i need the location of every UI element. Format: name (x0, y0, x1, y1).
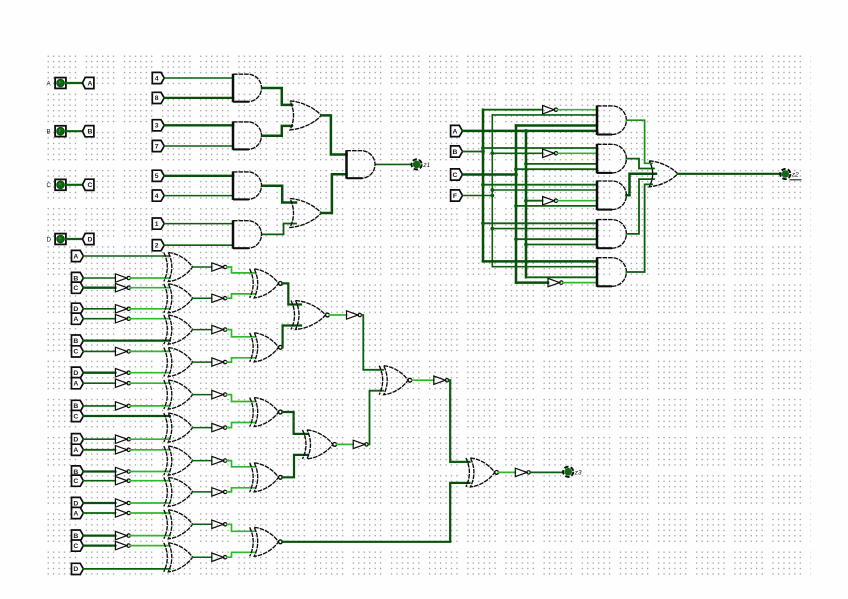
wire tunnel A r17 to inverter (83, 512, 115, 514)
label D (input pin D name) (47, 236, 52, 243)
tunnel S4-4 (D) (72, 303, 84, 314)
wire NX1 to XNOR XN1 in1 (227, 267, 256, 273)
wire tunnel A r1 direct to XOR (83, 255, 169, 257)
AND gate U10 (5-input) (597, 181, 626, 211)
input pin D (55, 234, 66, 245)
svg-text:C: C (73, 413, 78, 420)
wire tunnel B r14 to inverter (83, 470, 115, 472)
wire X10 out to inverter (193, 556, 212, 558)
wire tunnel A r9 to inverter (83, 382, 115, 384)
wire inverter N4-19 out to XOR (130, 545, 169, 547)
svg-text:C: C (453, 172, 458, 179)
wire tunnel 4 to AND (164, 195, 233, 197)
wire input D to tunnel (66, 238, 83, 240)
wire tunnel 1 to AND (164, 223, 233, 225)
tunnel S4-12 (D) (72, 434, 84, 445)
svg-text:D: D (73, 306, 78, 313)
svg-text:B: B (73, 338, 78, 345)
svg-text:B: B (88, 129, 93, 136)
junction V2 N2 row (490, 151, 494, 155)
XNOR gate XN7 (303, 430, 337, 459)
tunnel T23 (3) (152, 120, 164, 131)
wire tunnel B r6 direct to XOR (83, 339, 169, 341)
tunnel S4-15 (C) (72, 475, 84, 486)
inverter NX9 (212, 520, 227, 528)
tunnel S4-14 (B) (72, 466, 84, 477)
wire V4 to U9 pin4 (526, 163, 597, 165)
wire tunnel 5 to AND (164, 175, 233, 177)
wire tunnel A r5 to inverter (83, 318, 115, 320)
svg-text:3: 3 (155, 123, 159, 130)
XOR gate X9 (164, 510, 193, 539)
svg-text:D: D (88, 236, 93, 243)
wire inverter N4-4 out to XOR (130, 308, 169, 310)
wire inverter N4-5 out to XOR (130, 318, 169, 320)
wire X8 out to inverter (193, 491, 212, 493)
wire X5 out to inverter (193, 394, 212, 396)
wire X7 out to inverter (193, 460, 212, 462)
wire NX14 out to LED z3 (530, 471, 563, 473)
svg-text:A: A (73, 447, 78, 454)
wire V1 to U11 pin1 (483, 222, 597, 224)
tunnel T24 (7) (152, 140, 164, 151)
inverter NX14 (515, 468, 530, 476)
wire V1 top to NOT N1 (483, 109, 543, 111)
junction V2 G4 row (490, 227, 494, 231)
wire V4 bottom to U12 pin4 (526, 276, 597, 278)
wire V2 top to U8 pin2 (492, 114, 597, 116)
AND gate U4 (233, 220, 262, 249)
svg-text:D: D (47, 236, 52, 243)
svg-text:C: C (88, 182, 93, 189)
inverter NX2 (212, 294, 227, 302)
wire inverter N4-16 out to XOR (130, 502, 169, 504)
wire U2 out to OR U5 (263, 126, 292, 136)
XOR gate X3 (164, 315, 193, 344)
tunnel T28 (2) (152, 240, 164, 251)
junction V1 G4 row (481, 221, 485, 225)
junction V3 G3 row (514, 204, 518, 208)
svg-text:z3: z3 (574, 470, 582, 477)
XNOR gate XN4 (250, 463, 283, 492)
tunnel F (right section) (451, 190, 463, 201)
wire V2 to U10 pin2 (492, 189, 597, 191)
wire V4 to U11 pin5 (526, 244, 597, 246)
svg-text:7: 7 (155, 143, 159, 150)
svg-text:A: A (88, 80, 93, 87)
inverter N4-17 (115, 509, 130, 517)
wire U10 out to OR U13 (626, 174, 656, 196)
XNOR gate XN9 (final) (466, 458, 499, 487)
wire XN1 to XN6 in1 (282, 283, 301, 304)
inverter N4-5 (115, 315, 130, 323)
junction V4 G4 row (524, 243, 528, 247)
inverter N4-13 (115, 446, 130, 454)
wire N3 out to U10 pin4 (558, 200, 597, 202)
svg-text:D: D (73, 566, 78, 573)
svg-text:C: C (73, 543, 78, 550)
junction V4 on A row (524, 129, 528, 133)
wire bus V2 (F) (491, 115, 493, 267)
inverter N4-18 (115, 531, 130, 539)
svg-text:D: D (73, 370, 78, 377)
wire tunnel C r7 to inverter (83, 350, 115, 352)
wire XN6 out to inverter NX11 (329, 314, 346, 316)
wire C row to bus V3 (463, 173, 517, 176)
junction V1 G2 row (481, 146, 485, 150)
wire U12 out to OR U13 (626, 184, 652, 272)
wire V3 top to U8 pin3 (516, 124, 597, 127)
wire tunnel 7 to AND (164, 145, 233, 147)
XOR gate X1 (164, 253, 193, 282)
wire tunnel C r3 to inverter (83, 287, 115, 289)
label A (input pin A name) (47, 80, 52, 87)
wire XN5 to final XN9 in2 (282, 483, 469, 542)
wire NX12 to XN8 in2 (368, 391, 383, 445)
wire U6 out to AND U7 (321, 174, 346, 213)
wire tunnel D r12 to inverter (83, 438, 115, 440)
wire X9 out to inverter (193, 523, 212, 525)
tunnel S4-16 (D) (72, 497, 84, 508)
tunnel T22 (8) (152, 92, 164, 103)
wire X1 out to inverter (193, 266, 212, 268)
inverter N4-16 (115, 499, 130, 507)
junction V4 N3 row (524, 199, 528, 203)
wire N1 out to U8 pin1 (558, 109, 597, 111)
inverter N1 (543, 106, 558, 114)
wire A row to U8 pin5 (463, 130, 598, 133)
inverter NX5 (212, 390, 227, 398)
tunnel T25 (5) (152, 170, 164, 181)
AND gate U3 (233, 171, 262, 200)
inverter N2 (543, 149, 558, 157)
svg-text:B: B (47, 129, 51, 136)
tunnel B (right section) (451, 146, 463, 157)
svg-text:A: A (73, 253, 78, 260)
wire U8 out to OR U13 (626, 120, 652, 163)
wire NX9 to XNOR XN5 in1 (227, 524, 256, 531)
wire N4 out to U12 pin5 (563, 282, 597, 284)
wire V3 to U10 pin5 (516, 205, 597, 207)
wire bus V4 (A) (525, 131, 528, 277)
wire inverter N4-8 out to XOR (130, 372, 169, 374)
svg-text:4: 4 (155, 193, 159, 200)
wire NX6 to XNOR XN3 in2 (227, 423, 256, 428)
inverter N4-19 (115, 541, 130, 549)
wire bus V1 (B) (482, 110, 485, 262)
tunnel C (right section) (451, 169, 463, 180)
wire U7 out to LED z1 (376, 163, 411, 165)
wire NX10 to XNOR XN5 in2 (227, 552, 256, 557)
wire NX8 to XNOR XN4 in2 (227, 488, 256, 492)
wire V3 bottom to NOT N4 (516, 281, 548, 284)
inverter N3 (543, 197, 558, 205)
svg-text:2: 2 (155, 243, 159, 250)
XOR gate X2 (164, 284, 193, 313)
wire V1 bottom to U12 pin1 (483, 260, 597, 263)
wire V4 to NOT N3 (526, 200, 543, 202)
svg-text:A: A (73, 316, 78, 323)
svg-text:B: B (73, 533, 78, 540)
wire F row to bus V2 (463, 195, 493, 197)
svg-text:5: 5 (155, 173, 159, 180)
svg-text:z1: z1 (422, 162, 430, 169)
wire X3 out to inverter (193, 329, 212, 331)
input pin B (55, 126, 66, 137)
wire input C to tunnel (66, 184, 83, 186)
XNOR gate XN1 (250, 269, 283, 298)
inverter N4-2 (115, 274, 130, 282)
wire V2 to U11 pin2 (492, 228, 597, 230)
wire V2 to NOT N2 (492, 152, 542, 154)
wire tunnel D r20 direct to XOR (83, 568, 169, 570)
wire B row to bus V1 (463, 151, 484, 153)
inverter NX7 (212, 456, 227, 464)
wire NX13 to final XN9 in1 (449, 380, 470, 462)
wire tunnel B r2 to inverter (83, 277, 115, 279)
svg-text:8: 8 (155, 95, 159, 102)
wire U13 out to LED z2 (678, 173, 781, 175)
svg-text:4: 4 (155, 75, 159, 82)
wire inverter N4-17 out to XOR (130, 512, 169, 514)
input pin C (55, 179, 66, 190)
inverter NX11 (347, 311, 362, 319)
AND gate U7 (347, 150, 376, 179)
XNOR gate XN2 (250, 333, 283, 362)
wire U11 out to OR U13 (626, 179, 654, 234)
wire NX11 to XN8 in1 (362, 315, 384, 370)
wire input A to tunnel (66, 82, 83, 84)
wire V1 to U10 pin1 (483, 184, 597, 186)
wire N2 out to U9 pin2 (558, 152, 597, 154)
wire bus V3 (C) (515, 126, 518, 283)
wire X4 out to inverter (193, 361, 212, 363)
tunnel S4-7 (C) (72, 346, 84, 357)
wire XN3 to XN7 in1 (282, 412, 308, 434)
XOR gate X4 (164, 348, 193, 377)
AND gate U1 (233, 74, 262, 103)
inverter NX1 (212, 263, 227, 271)
junction V2 G3 row (490, 188, 494, 192)
inverter NX13 (434, 376, 449, 384)
wire V3 to U9 pin5 (516, 168, 597, 170)
tunnel A (left) (83, 77, 94, 88)
wire U3 out to OR U6 (263, 186, 296, 203)
svg-text:C: C (47, 182, 52, 189)
XOR gate X5 (164, 380, 193, 409)
wire XN7 out to inverter NX12 (337, 443, 354, 445)
XOR gate X7 (164, 446, 193, 475)
wire tunnel D r4 to inverter (83, 308, 115, 310)
inverter N4-3 (115, 284, 130, 292)
tunnel S4-9 (A) (72, 378, 84, 389)
tunnel S4-17 (A) (72, 507, 84, 518)
junction V3 G2 row (514, 167, 518, 171)
OR gate U13 (5-input) (649, 161, 678, 187)
tunnel B (left) (83, 126, 94, 137)
XNOR gate XN8 (379, 366, 412, 395)
tunnel S4-8 (D) (72, 367, 84, 378)
wire tunnel C r15 to inverter (83, 480, 115, 482)
wire XN8 out to inverter NX13 (412, 379, 434, 381)
wire inverter N4-14 out to XOR (130, 471, 169, 473)
wire inverter N4-13 out to XOR (130, 449, 169, 451)
LED z1 (412, 159, 431, 169)
XOR gate X10 (164, 543, 193, 572)
wire NX5 to XNOR XN3 in1 (227, 395, 256, 402)
wire X2 out to inverter (193, 297, 212, 299)
junction V4 G2 row (524, 162, 528, 166)
svg-text:C: C (73, 478, 78, 485)
svg-text:1: 1 (155, 221, 159, 228)
XOR gate X8 (164, 477, 193, 506)
svg-text:D: D (73, 500, 78, 507)
inverter NX4 (212, 358, 227, 366)
XNOR gate XN5 (250, 527, 283, 556)
svg-text:A: A (73, 510, 78, 517)
wire U4 out to OR U6 (263, 224, 296, 235)
label z2 underline (790, 179, 802, 181)
wire inverter N4-18 out to XOR (130, 535, 169, 537)
AND gate U11 (5-input) (597, 219, 626, 249)
junction V3 on C row (514, 173, 518, 177)
inverter N4-12 (115, 435, 130, 443)
tunnel S4-5 (A) (72, 313, 84, 324)
svg-text:z2: z2 (791, 172, 799, 179)
wire NX2 to XNOR XN1 in2 (227, 294, 256, 298)
AND gate U2 (233, 121, 262, 149)
wire tunnel B r18 to inverter (83, 534, 115, 536)
svg-text:C: C (73, 285, 78, 292)
wire XN4 to XN7 in2 (282, 455, 308, 477)
wire tunnel C r11 direct to XOR (83, 415, 169, 417)
wire inverter N4-12 out to XOR (130, 438, 169, 440)
svg-text:B: B (453, 149, 458, 156)
wire tunnel B r10 to inverter (83, 405, 115, 407)
inverter NX10 (212, 553, 227, 562)
wire tunnel C r19 to inverter (83, 544, 115, 546)
XOR gate X6 (164, 413, 193, 442)
tunnel S4-1 (A) (72, 250, 84, 261)
tunnel A (right section) (451, 125, 463, 136)
inverter N4-4 (115, 305, 130, 313)
OR gate U6 (290, 199, 321, 228)
tunnel T21 (4) (152, 72, 164, 83)
LED z3 (563, 467, 582, 477)
inverter N4-10 (115, 402, 130, 410)
wire XN9 out to inverter NX14 (499, 471, 516, 473)
wire input B to tunnel (66, 130, 83, 132)
junction V1 on B row (481, 150, 485, 154)
inverter N4-8 (115, 369, 130, 377)
wire inverter N4-9 out to XOR (130, 382, 169, 384)
tunnel C (left) (83, 179, 94, 190)
wire tunnel 3 to AND (164, 124, 233, 126)
tunnel S4-18 (B) (72, 530, 84, 541)
OR gate U5 (290, 101, 321, 130)
wire NX4 to XNOR XN2 in2 (227, 358, 256, 362)
wire NX3 to XNOR XN2 in1 (227, 330, 256, 337)
tunnel S4-19 (C) (72, 540, 84, 551)
tunnel S4-11 (C) (72, 410, 84, 421)
junction V2 on F row (490, 194, 494, 198)
label C (input pin C name) (47, 182, 52, 189)
wire NX7 to XNOR XN4 in1 (227, 461, 256, 467)
tunnel D (left) (83, 233, 94, 244)
wire tunnel 4 to AND (164, 77, 233, 79)
tunnel S4-20 (D) (72, 563, 84, 574)
inverter NX3 (212, 325, 227, 333)
label B (input pin B name) (47, 129, 51, 136)
tunnel S4-3 (C) (72, 282, 84, 293)
wire tunnel 2 to AND (164, 244, 233, 246)
wire V3 to U11 pin4 (516, 238, 597, 240)
LED z2 (780, 169, 799, 179)
wire tunnel 8 to AND (164, 97, 233, 99)
tunnel S4-2 (B) (72, 272, 84, 283)
inverter N4-9 (115, 379, 130, 387)
wire V1 to U9 pin1 (483, 147, 597, 149)
wire XN2 to XN6 in2 (282, 326, 301, 348)
wire U9 out to OR U13 (626, 159, 654, 169)
XNOR gate XN6 (291, 301, 329, 330)
inverter N4-15 (115, 477, 130, 485)
wire inverter N4-2 out to XOR (130, 277, 169, 279)
wire tunnel A r13 to inverter (83, 449, 115, 451)
AND gate U9 (5-input) (597, 144, 626, 174)
tunnel S4-13 (A) (72, 444, 84, 455)
tunnel S4-6 (B) (72, 335, 84, 346)
tunnel S4-10 (B) (72, 400, 84, 411)
inverter N4 (548, 278, 563, 286)
svg-text:F: F (453, 193, 457, 200)
wire tunnel D r8 to inverter (83, 372, 115, 374)
svg-text:B: B (73, 403, 78, 410)
wire V2 bottom to U12 pin2 (492, 266, 597, 268)
tunnel T27 (1) (152, 218, 164, 229)
wire X6 out to inverter (193, 427, 212, 429)
wire inverter N4-10 out to XOR (130, 405, 169, 407)
wire U5 out to AND U7 (321, 115, 346, 154)
svg-text:A: A (453, 128, 458, 135)
AND gate U12 (5-input) (597, 257, 626, 287)
inverter NX8 (212, 488, 227, 496)
wire inverter N4-15 out to XOR (130, 480, 169, 482)
inverter N4-7 (115, 347, 130, 355)
tunnel T26 (4) (152, 190, 164, 201)
XNOR gate XN3 (250, 398, 283, 427)
inverter N4-14 (115, 467, 130, 475)
wire U1 out to OR U5 (263, 88, 292, 105)
svg-text:A: A (73, 381, 78, 388)
wire inverter N4-7 out to XOR (130, 350, 169, 352)
inverter NX6 (212, 423, 227, 431)
wire inverter N4-3 out to XOR (130, 287, 169, 289)
svg-text:C: C (73, 349, 78, 356)
inverter NX12 (353, 440, 368, 448)
input pin A (55, 78, 66, 89)
wire tunnel D r16 to inverter (83, 502, 115, 504)
junction V3 G4 row (514, 237, 518, 241)
svg-text:D: D (73, 437, 78, 444)
AND gate U8 (5-input) (597, 105, 626, 135)
junction V1 G3 row (481, 183, 485, 187)
